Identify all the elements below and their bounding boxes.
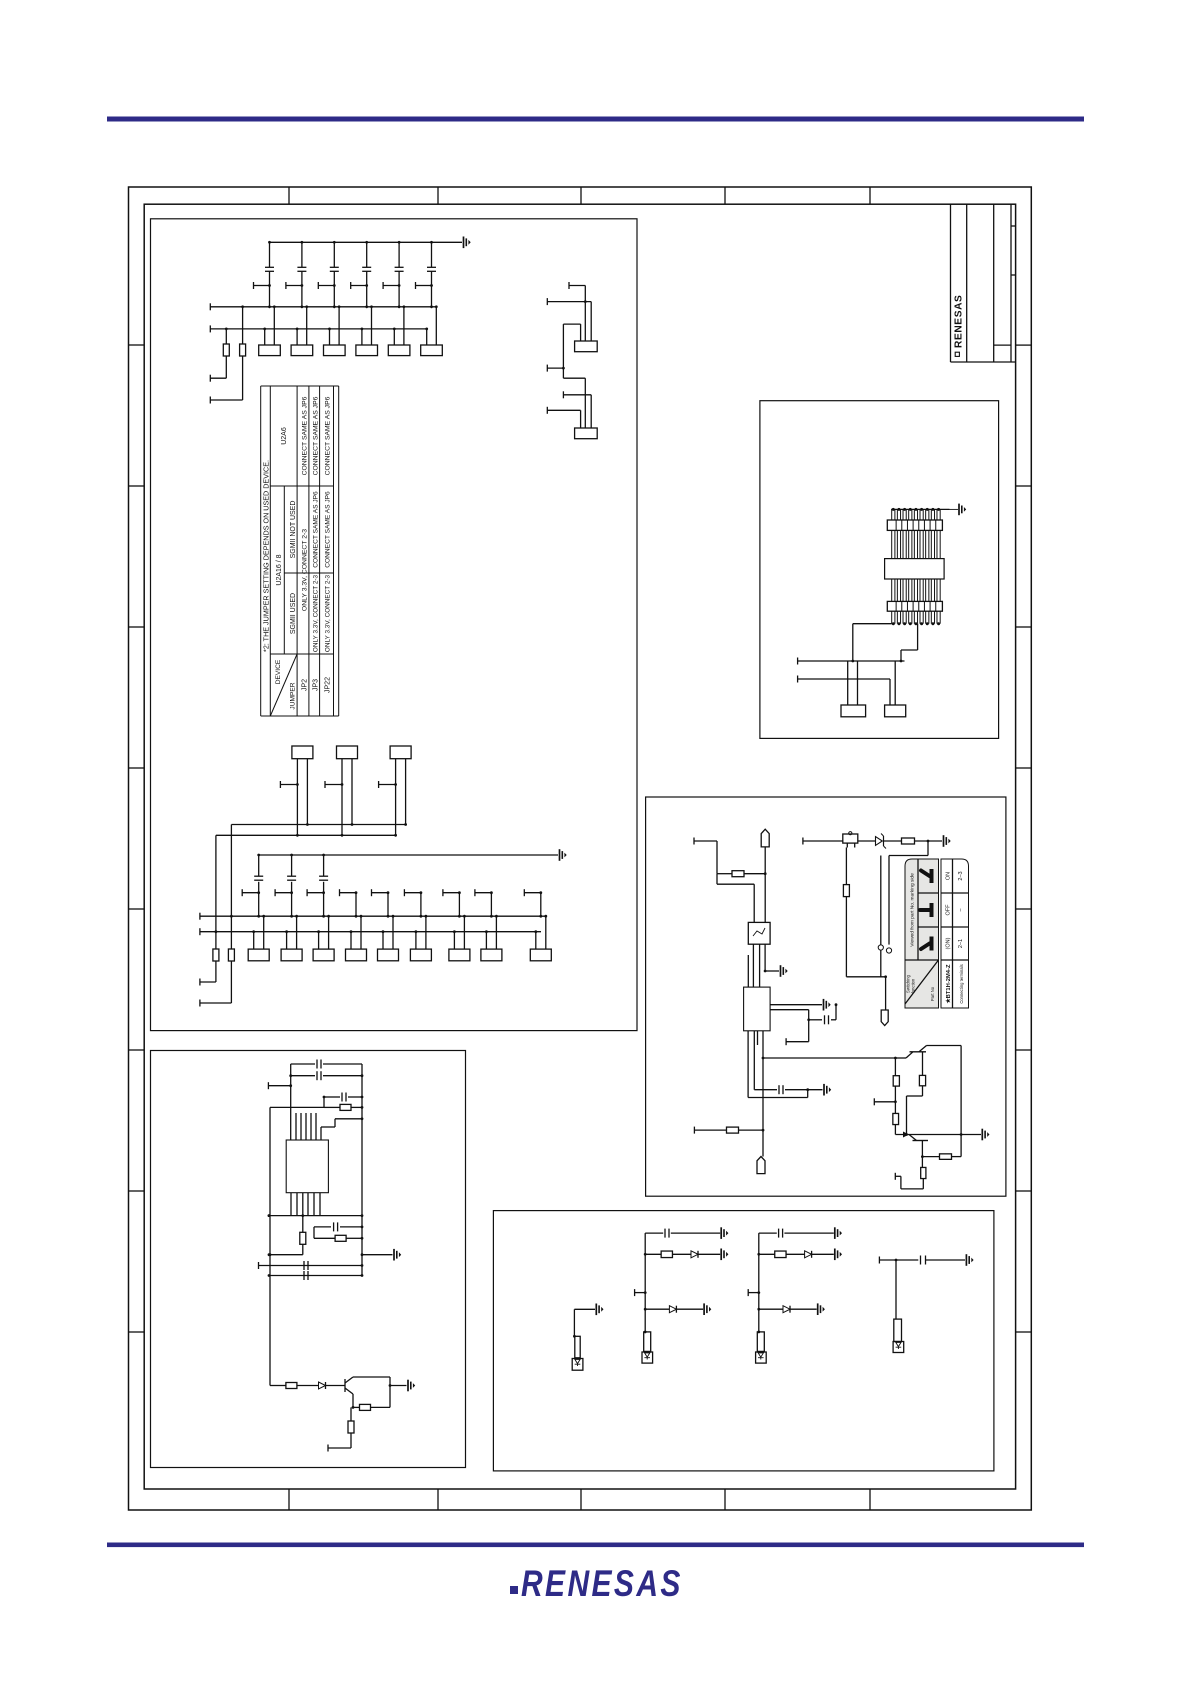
svg-text:SGMII USED: SGMII USED: [290, 593, 297, 634]
svg-text:Part No: Part No: [930, 986, 935, 1001]
svg-text:JP3: JP3: [312, 679, 319, 691]
svg-text:–: –: [958, 908, 964, 912]
svg-text:Connecting terminals: Connecting terminals: [959, 964, 964, 1003]
svg-text:DEVICE: DEVICE: [275, 659, 282, 684]
svg-text:★BT1H-2M4-Z: ★BT1H-2M4-Z: [945, 964, 952, 1003]
svg-text:RENESAS: RENESAS: [521, 1564, 683, 1604]
svg-text:*2: THE JUMPER SETTING DEPENDS: *2: THE JUMPER SETTING DEPENDS ON USED D…: [261, 460, 270, 652]
svg-text:JP22: JP22: [325, 677, 332, 693]
svg-text:Viewed from part No. marking s: Viewed from part No. marking side: [910, 873, 916, 947]
svg-text:SGMII NOT USED: SGMII NOT USED: [290, 501, 297, 559]
svg-text:RENESAS: RENESAS: [954, 295, 965, 348]
svg-text:ONLY 3.3V, CONNECT 2-3: ONLY 3.3V, CONNECT 2-3: [312, 574, 319, 652]
svg-text:ONLY 3.3V, CONNECT 2-3: ONLY 3.3V, CONNECT 2-3: [325, 574, 332, 652]
svg-text:JUMPER: JUMPER: [290, 682, 297, 709]
svg-text:CONNECT SAME AS JP6: CONNECT SAME AS JP6: [325, 491, 332, 568]
svg-text:function: function: [911, 978, 916, 993]
svg-text:(ON): (ON): [946, 937, 952, 949]
svg-text:CONNECT SAME AS JP6: CONNECT SAME AS JP6: [312, 396, 319, 475]
svg-text:2–3: 2–3: [958, 871, 964, 880]
svg-text:CONNECT SAME AS JP6: CONNECT SAME AS JP6: [325, 396, 332, 475]
svg-text:2–1: 2–1: [958, 939, 964, 948]
svg-text:U2A16 / 8: U2A16 / 8: [276, 554, 283, 585]
svg-text:JP2: JP2: [302, 679, 309, 691]
svg-text:CONNECT SAME AS JP6: CONNECT SAME AS JP6: [312, 491, 319, 568]
svg-text:U2A6: U2A6: [281, 427, 288, 445]
svg-text:ONLY 3.3V, CONNECT 2-3: ONLY 3.3V, CONNECT 2-3: [302, 529, 309, 611]
svg-text:ON: ON: [946, 872, 952, 880]
svg-text:OFF: OFF: [946, 904, 952, 916]
svg-text:CONNECT SAME AS JP6: CONNECT SAME AS JP6: [302, 396, 309, 475]
